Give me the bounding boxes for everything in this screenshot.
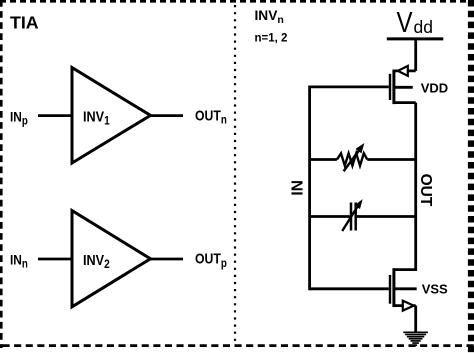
wire IN net to resistor R1	[310, 158, 337, 161]
transistor Q1 (PMOS) source segment	[394, 70, 416, 73]
wire INV1 output to OUT_n	[151, 114, 184, 117]
transistor Q1 bulk stub (tied to VDD)	[394, 86, 413, 89]
wire IN_n to INV2 input	[38, 258, 72, 261]
svg-text:IN: IN	[290, 180, 307, 196]
svg-text:INp: INp	[10, 108, 28, 127]
svg-text:VSS: VSS	[422, 282, 448, 297]
label INV1	[83, 109, 110, 128]
TIA block boundary (outer dashed frame, top edge)	[0, 0, 470, 3]
svg-text:OUT: OUT	[417, 174, 434, 207]
resistor R1 zigzag (variable feedback resistor)	[337, 153, 367, 165]
wire IN net to Q1 gate	[310, 86, 389, 89]
svg-text:V: V	[397, 6, 413, 39]
resistor R1 variability arrow shaft	[344, 151, 359, 172]
capacitor C1 left plate	[350, 203, 353, 231]
wire capacitor C1 to OUT net	[357, 215, 416, 218]
svg-text:OUTp: OUTp	[195, 251, 227, 270]
svg-text:INn: INn	[10, 251, 28, 270]
svg-text:INVn: INVn	[255, 8, 284, 26]
svg-text:TIA: TIA	[10, 12, 39, 32]
TIA block boundary (outer dashed frame, left edge)	[0, 0, 3, 348]
inverter U2 (INV2 triangle)	[72, 211, 151, 307]
capacitor C1 variability arrowhead	[355, 200, 362, 208]
label OUT_p	[195, 251, 227, 270]
transistor Q1 source arrow (points left)	[398, 66, 408, 76]
transistor Q1 channel line	[392, 70, 395, 105]
capacitor C1 right plate	[354, 203, 357, 231]
transistor Q1 drain segment	[394, 101, 416, 104]
wire Vdd rail to PMOS source	[414, 39, 417, 71]
transistor Q2 (NMOS) drain segment	[394, 268, 416, 271]
wire IN net to capacitor C1	[310, 215, 350, 218]
wire INV2 output to OUT_p	[151, 258, 184, 261]
capacitor C1 variability arrow shaft	[342, 207, 357, 231]
wire net OUT (right vertical)	[414, 103, 417, 271]
outer dashed frame, bottom edge	[3, 344, 474, 347]
Vdd supply rail bar	[387, 37, 444, 40]
wire Q2 source to ground	[414, 306, 417, 333]
transistor Q2 gate line	[389, 275, 391, 304]
svg-text:n=1, 2: n=1, 2	[255, 32, 288, 44]
block divider (dotted line between TIA and INV_n)	[234, 5, 236, 344]
svg-text:OUTn: OUTn	[195, 107, 227, 126]
resistor R1 variability arrowhead	[356, 144, 363, 152]
inverter U1 (INV1 triangle)	[72, 68, 151, 163]
net Vdd label	[397, 6, 413, 39]
wire IN_p to INV1 input	[38, 114, 72, 117]
transistor Q2 source arrow (points right)	[403, 301, 414, 311]
transistor Q2 channel line	[392, 268, 395, 307]
wire resistor R1 to OUT net	[367, 158, 415, 161]
label IN_p	[10, 108, 28, 127]
transistor Q1 gate line	[389, 74, 391, 100]
svg-text:VDD: VDD	[421, 81, 448, 96]
INV_n block boundary (outer dashed frame, right edge)	[468, 0, 474, 353]
svg-text:dd: dd	[414, 17, 433, 37]
label INV2	[83, 252, 110, 271]
ground symbol (stacked bars)	[403, 332, 428, 345]
transistor Q2 source segment	[394, 304, 416, 307]
wire net IN (left vertical)	[308, 86, 311, 291]
label OUT_n	[195, 107, 227, 126]
transistor Q2 bulk stub (tied to VSS)	[394, 287, 417, 290]
wire IN net to Q2 gate	[310, 287, 389, 290]
label IN_n	[10, 251, 28, 270]
